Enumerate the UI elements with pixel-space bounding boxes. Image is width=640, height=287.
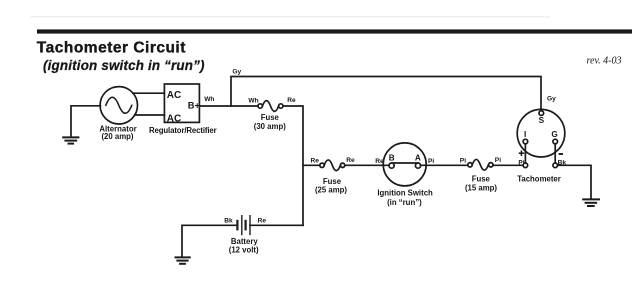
wire: fuse F1 to corner (283, 106, 303, 225)
wire: Bk node to ground (558, 165, 592, 198)
svg-text:AC: AC (167, 90, 181, 101)
header rule (37, 29, 632, 33)
svg-text:(25 amp): (25 amp) (315, 186, 347, 195)
wire: alternator to ground (71, 106, 100, 136)
node Bk (tach -) (553, 163, 558, 168)
regulator/rectifier box (164, 84, 199, 122)
tachometer circle (517, 109, 565, 157)
wire: Gy top bus (231, 77, 541, 111)
svg-text:Re: Re (346, 157, 355, 164)
wire: B+ output to fuse F1 (199, 105, 258, 107)
label - (tach) (559, 153, 563, 155)
wire: tach I to Pi node (524, 144, 526, 163)
tachometer terminal G (553, 139, 558, 144)
svg-text:Tachometer Circuit: Tachometer Circuit (37, 40, 186, 57)
fuse F3 15 amp symbol (468, 163, 472, 167)
ground (tachometer) (583, 199, 599, 206)
wire: battery row right (250, 224, 303, 226)
svg-text:rev. 4-03: rev. 4-03 (587, 56, 622, 67)
svg-text:Ignition Switch: Ignition Switch (377, 188, 433, 197)
svg-text:Wh: Wh (204, 96, 214, 103)
svg-text:Gy: Gy (547, 95, 556, 102)
svg-text:Re: Re (258, 217, 267, 224)
ground (battery) (176, 257, 190, 263)
svg-text:Wh: Wh (248, 98, 258, 105)
svg-text:I: I (524, 130, 526, 139)
ignition switch circle (383, 143, 426, 186)
fuse F2 25 amp symbol (320, 163, 324, 167)
battery plates (237, 216, 250, 235)
svg-text:Re: Re (375, 158, 384, 165)
ground (alternator) (63, 137, 78, 143)
wire: fuse F2 to ignition switch (345, 164, 389, 166)
svg-text:Re: Re (311, 158, 320, 165)
svg-text:Fuse: Fuse (472, 175, 491, 184)
svg-text:Bk: Bk (558, 160, 567, 167)
svg-text:S: S (539, 116, 545, 125)
wire: ignition switch to fuse F3 (421, 164, 468, 166)
svg-text:A: A (415, 153, 421, 162)
tachometer terminal I (523, 139, 528, 144)
svg-text:Tachometer: Tachometer (517, 174, 561, 183)
svg-text:B: B (389, 154, 395, 163)
svg-text:(15 amp): (15 amp) (465, 184, 497, 193)
svg-text:(12 volt): (12 volt) (229, 246, 259, 255)
ignition switch contact bar (392, 162, 418, 164)
svg-text:(in “run”): (in “run”) (387, 198, 422, 207)
svg-text:Battery: Battery (231, 237, 259, 246)
faint scan smudge (30, 16, 550, 18)
alternator sine symbol (106, 97, 132, 113)
svg-text:Fuse: Fuse (261, 113, 280, 122)
tachometer terminal S (539, 111, 544, 116)
svg-text:Pi: Pi (518, 160, 524, 167)
svg-text:AC: AC (167, 113, 181, 124)
wire: alternator AC bottom to regulator (135, 114, 165, 116)
svg-text:Regulator/Rectifier: Regulator/Rectifier (149, 126, 217, 135)
wire: alternator AC top to regulator (133, 92, 164, 94)
wire: bus to fuse F2 (303, 164, 320, 166)
wire: tach G to Bk node (554, 144, 556, 163)
svg-text:(30 amp): (30 amp) (254, 122, 286, 131)
ignition switch terminal A (415, 163, 420, 168)
svg-text:Pi: Pi (428, 158, 434, 165)
svg-text:Re: Re (287, 97, 296, 104)
label + (tach) (519, 150, 525, 156)
svg-text:Bk: Bk (224, 217, 233, 224)
svg-text:Gy: Gy (232, 69, 241, 76)
wire: fuse F3 to tachometer Pi terminal (493, 164, 523, 166)
svg-text:(20 amp): (20 amp) (101, 132, 133, 141)
svg-text:Pi: Pi (495, 157, 501, 164)
ignition switch terminal B (389, 163, 394, 168)
wire: battery to ground (182, 225, 237, 256)
svg-text:G: G (551, 130, 557, 139)
node Pi (tach +) (523, 163, 528, 168)
svg-text:(ignition switch in “run”): (ignition switch in “run”) (43, 58, 205, 73)
svg-text:Pi: Pi (460, 157, 466, 164)
fuse F1 30 amp symbol (258, 104, 262, 108)
alternator circle (100, 87, 137, 124)
svg-text:B+: B+ (188, 101, 201, 111)
